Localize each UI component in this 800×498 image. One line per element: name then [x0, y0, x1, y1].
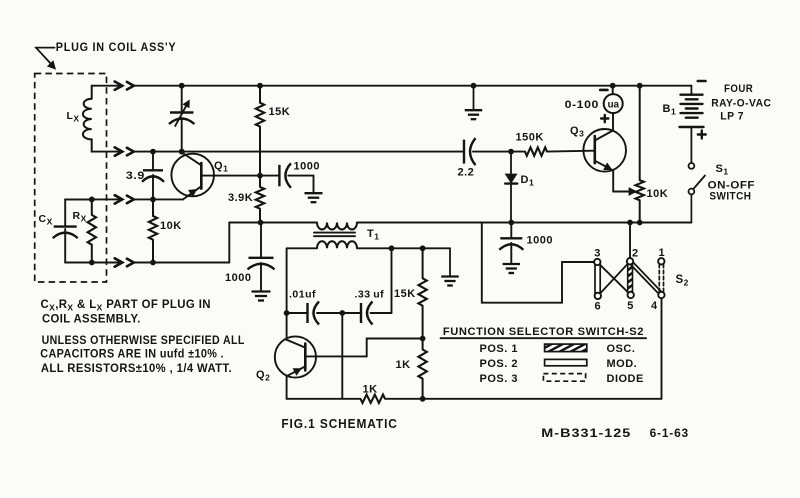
wire row4 to riser	[134, 262, 230, 264]
label 1000 (Q1 output)	[294, 161, 320, 173]
label .33uf	[355, 289, 385, 301]
wire S2 pin2 stem	[629, 223, 631, 259]
node: 15K top	[257, 83, 263, 89]
pin label 3	[594, 248, 601, 260]
capacitor 1000 (detector)	[499, 223, 523, 264]
svg-text:.01uf: .01uf	[289, 289, 316, 301]
svg-text:3.9: 3.9	[126, 170, 145, 182]
label 15K (top)	[269, 106, 291, 118]
label 1K (vertical)	[396, 359, 411, 371]
svg-text:CAPACITORS ARE IN uufd ±10% .: CAPACITORS ARE IN uufd ±10% .	[40, 349, 224, 361]
svg-text:POS. 1: POS. 1	[480, 343, 518, 355]
transistor Q2	[275, 336, 367, 377]
svg-text:1K: 1K	[396, 359, 411, 371]
capacitor CX	[53, 199, 92, 262]
wire midpoint drop	[341, 313, 343, 399]
switch S2 bar 2-5 (OSC hatched)	[628, 264, 633, 293]
ground (Q1 output cap)	[305, 193, 323, 202]
transformer T1 secondary	[317, 241, 357, 248]
pin label 5	[627, 300, 634, 312]
label battery minus	[698, 80, 706, 83]
label .01uf	[289, 289, 316, 301]
label 3.9	[126, 170, 145, 182]
S2 contact 3	[594, 259, 600, 265]
switch S1	[689, 163, 706, 223]
potentiometer 10K	[636, 86, 644, 223]
svg-text:4: 4	[651, 300, 658, 312]
node: 3.9 cap top	[150, 149, 156, 155]
svg-text:1: 1	[658, 247, 665, 259]
legend title FUNCTION SELECTOR SWITCH-S2	[443, 326, 644, 338]
note line 4	[40, 349, 224, 361]
legend OSC.	[607, 343, 636, 355]
node: 3.9 cap / 10K junction	[150, 197, 156, 203]
S2 contact 4	[658, 292, 664, 298]
transformer T1 primary	[317, 223, 357, 230]
note line 3	[42, 335, 245, 347]
label M-B331-125	[541, 428, 631, 440]
svg-text:.33 uf: .33 uf	[355, 289, 385, 301]
svg-text:5: 5	[627, 300, 634, 312]
wire row4 riser to B+ rail	[228, 223, 230, 263]
node: .01/.33 midpoint	[339, 310, 345, 316]
wire .33uf to secondary	[391, 248, 393, 313]
pin label 4	[651, 300, 658, 312]
node: 15K/1K junction	[420, 336, 426, 342]
label 10K (emitter)	[160, 220, 182, 232]
svg-text:FIG.1 SCHEMATIC: FIG.1 SCHEMATIC	[281, 416, 397, 431]
node: tuning cap top	[179, 83, 185, 89]
label 0-100	[565, 99, 599, 111]
svg-text:10K: 10K	[647, 188, 669, 200]
legend swatch OSC (hatched)	[545, 344, 587, 352]
svg-text:POS. 3: POS. 3	[480, 373, 518, 385]
svg-text:OSC.: OSC.	[607, 343, 636, 355]
pin label 1	[658, 247, 665, 259]
wire row3 segment	[65, 198, 122, 200]
label LP 7	[720, 111, 744, 123]
label B1	[663, 103, 677, 117]
note line 5	[41, 363, 232, 375]
legend POS. 2	[480, 358, 518, 370]
legend underline	[441, 337, 646, 339]
svg-text:M-B331-125: M-B331-125	[541, 428, 631, 440]
node: pot bottom	[637, 220, 643, 226]
legend POS. 3	[480, 373, 518, 385]
label 15K (osc)	[394, 288, 416, 300]
svg-text:LP 7: LP 7	[720, 111, 744, 123]
switch S2 bar 3-6 (MOD)	[595, 264, 600, 293]
wire Q2 emitter drop	[286, 376, 288, 399]
diode D1	[505, 152, 517, 223]
label PLUG IN COIL ASS'Y	[56, 42, 177, 54]
node: secondary tap	[389, 245, 395, 251]
wire secondary left drop	[286, 248, 288, 313]
inductor LX	[83, 86, 92, 152]
label meter minus	[600, 89, 607, 92]
label S2	[676, 274, 689, 288]
transistor Q3	[583, 129, 626, 172]
wire S2 diag 2-6	[600, 264, 628, 294]
wire B+ rail (left of T1)	[229, 222, 317, 224]
node: RX bottom junction	[89, 260, 95, 266]
wire T1 secondary right	[357, 247, 450, 249]
svg-text:FOUR: FOUR	[724, 83, 753, 95]
svg-text:2: 2	[632, 248, 639, 260]
ground (secondary)	[441, 248, 459, 285]
capacitor 2.2	[464, 138, 511, 165]
capacitor .33uf	[342, 302, 391, 325]
svg-text:ALL RESISTORS±10% , 1/4 WATT.: ALL RESISTORS±10% , 1/4 WATT.	[41, 363, 232, 375]
wire emitter rail right	[385, 398, 662, 400]
svg-text:6: 6	[594, 301, 601, 313]
label 1000 (bias)	[225, 272, 251, 284]
wire T1 secondary left	[287, 247, 317, 249]
connector pair row 3	[115, 195, 134, 203]
transistor Q1	[171, 153, 260, 200]
wire row3 to Q1 emitter	[134, 198, 183, 200]
wire Q3 emitter to wiper	[613, 171, 636, 196]
label 10K (pot)	[647, 188, 669, 200]
svg-text:ua: ua	[608, 99, 620, 110]
wire row1 top bus	[134, 85, 692, 87]
wire row1 left stub	[92, 85, 123, 87]
label 1000 (detector)	[527, 235, 553, 247]
dashed enclosure (plug-in coil assembly)	[35, 74, 107, 283]
pin label 2	[632, 248, 639, 260]
wire row4 segment	[65, 262, 122, 264]
capacitor 1000 (Q1 output)	[260, 163, 314, 192]
svg-text:1000: 1000	[225, 272, 251, 284]
meter M1 0-100ua	[604, 86, 623, 131]
label T1	[367, 228, 379, 242]
resistor 15K (collector load)	[256, 86, 264, 176]
svg-text:1000: 1000	[527, 235, 553, 247]
svg-text:1000: 1000	[294, 161, 320, 173]
svg-text:3.9K: 3.9K	[228, 192, 253, 204]
node: RX top junction	[89, 197, 95, 203]
svg-text:PLUG IN COIL ASS'Y: PLUG IN COIL ASS'Y	[56, 42, 177, 54]
label ON-OFF	[708, 180, 755, 192]
svg-text:1K: 1K	[363, 384, 378, 396]
capacitor .01uf	[287, 302, 343, 325]
svg-text:COIL ASSEMBLY.: COIL ASSEMBLY.	[42, 314, 141, 326]
node: 15K osc top	[420, 245, 426, 251]
node: 2.2/150K junction	[508, 149, 514, 155]
resistor 15K (osc)	[418, 248, 426, 338]
node: 10K bottom	[150, 260, 156, 266]
label battery plus	[698, 131, 706, 139]
note line 2	[42, 314, 141, 326]
S2 contact 5	[628, 292, 634, 298]
label 1K (horizontal)	[363, 384, 378, 396]
node: meter top	[610, 83, 616, 89]
label 6-1-63	[650, 428, 689, 440]
node: S2 stem junction	[627, 220, 633, 226]
label S1	[716, 163, 729, 177]
svg-text:0-100: 0-100	[565, 99, 599, 111]
leader arrow to plug-in coil assembly	[36, 48, 56, 69]
resistor 1K (horizontal)	[361, 395, 386, 403]
wire B+ rail (right of T1)	[357, 222, 691, 224]
note line 1	[41, 299, 211, 313]
label D1	[521, 174, 535, 188]
resistor 1K (vertical)	[418, 339, 426, 399]
node: Q1 base junction	[257, 173, 263, 179]
svg-text:DIODE: DIODE	[607, 373, 644, 385]
node: tuning cap bottom	[179, 149, 185, 155]
wire row2 left stub	[92, 151, 123, 153]
svg-text:SWITCH: SWITCH	[709, 191, 751, 203]
node: pot top	[637, 83, 643, 89]
svg-text:2.2: 2.2	[458, 166, 475, 178]
connector pair row 2	[115, 147, 134, 155]
legend MOD.	[607, 358, 638, 370]
svg-text:CX,RX & LX PART OF PLUG IN: CX,RX & LX PART OF PLUG IN	[41, 299, 211, 313]
connector pair row 1	[115, 82, 134, 90]
svg-text:10K: 10K	[160, 220, 182, 232]
label Q1	[214, 160, 228, 174]
label Q3	[570, 125, 584, 139]
connector pair row 4	[115, 258, 134, 266]
node: 1K bottom junction	[420, 396, 426, 402]
wire emitter rail left	[287, 398, 361, 400]
label FOUR	[724, 83, 753, 95]
wire Q2 base step	[367, 339, 423, 357]
variable capacitor (tuning)	[169, 86, 195, 152]
wire S2 diag 3-5	[600, 264, 629, 293]
svg-text:6-1-63: 6-1-63	[650, 428, 689, 440]
svg-text:MOD.: MOD.	[607, 358, 638, 370]
svg-text:15K: 15K	[269, 106, 291, 118]
capacitor 3.9	[142, 152, 164, 200]
wire Q2 collector	[286, 313, 288, 340]
wire B+ tap to S2 pin3	[482, 223, 594, 303]
svg-text:15K: 15K	[394, 288, 416, 300]
legend DIODE	[607, 373, 644, 385]
resistor RX	[88, 199, 96, 262]
wire row2 to 2.2 cap	[134, 151, 464, 153]
S2 contact 6	[595, 293, 601, 299]
label 150K	[516, 132, 544, 144]
node: Q1 collector junction	[179, 149, 185, 155]
legend swatch DIODE (dashed)	[543, 374, 585, 382]
ground (bias cap)	[252, 292, 271, 301]
node: top bus ground	[471, 83, 477, 89]
node: D1 bottom junction	[508, 220, 514, 226]
node: 3.9K bottom junction	[258, 220, 264, 226]
label SWITCH	[709, 191, 751, 203]
S2 contact 1	[658, 258, 664, 264]
label LX	[67, 110, 80, 124]
resistor 10K (emitter)	[149, 199, 157, 262]
label meter plus	[601, 115, 608, 122]
S2 contact 2	[627, 258, 633, 264]
transformer T1 core	[314, 233, 355, 237]
svg-text:POS. 2: POS. 2	[480, 358, 518, 370]
legend swatch MOD (open)	[545, 359, 587, 365]
svg-text:FUNCTION SELECTOR SWITCH-S2: FUNCTION SELECTOR SWITCH-S2	[443, 326, 644, 338]
svg-text:UNLESS OTHERWISE SPECIFIED ALL: UNLESS OTHERWISE SPECIFIED ALL	[42, 335, 245, 347]
wire S2 pin4 drop	[661, 298, 663, 399]
legend POS. 1	[480, 343, 518, 355]
svg-text:RAY-O-VAC: RAY-O-VAC	[711, 98, 771, 110]
capacitor 1000 (bias)	[248, 223, 275, 292]
ground (top bus)	[465, 86, 483, 120]
resistor 150K	[511, 147, 595, 155]
label RAY-O-VAC	[711, 98, 771, 110]
ground (detector cap)	[503, 264, 521, 273]
svg-text:150K: 150K	[516, 132, 544, 144]
pin label 6	[594, 301, 601, 313]
label 2.2	[458, 166, 475, 178]
node: collector/cap junction	[284, 310, 290, 316]
label RX	[73, 210, 87, 224]
label 3.9K	[228, 192, 253, 204]
resistor 3.9K	[256, 176, 264, 223]
label Q2	[256, 369, 270, 383]
battery B1	[680, 86, 704, 163]
wire S2 diag 2-4 (double)	[631, 263, 661, 294]
switch S2 bar 1-4 (DIODE dashed)	[659, 264, 663, 292]
svg-text:3: 3	[594, 248, 601, 260]
title FIG.1 SCHEMATIC	[281, 416, 397, 431]
label CX	[39, 213, 53, 227]
